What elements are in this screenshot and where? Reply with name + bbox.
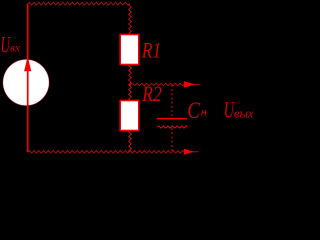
svg-text:вх: вх bbox=[10, 41, 21, 55]
node junction (130,84) bbox=[129, 83, 132, 86]
svg-text:R1: R1 bbox=[141, 38, 161, 63]
wire: branch to output arrow (130,84.4)-(184,84.4) bbox=[131, 83, 185, 85]
svg-text:вых: вых bbox=[234, 106, 254, 121]
voltage source U1 circle bbox=[3, 60, 49, 106]
wire: vertical into R1 top (130,3.6)-(130,34.5) bbox=[129, 4, 132, 35]
output arrow bottom tail line bbox=[192, 151, 199, 153]
output arrow bottom (points right) bbox=[184, 149, 194, 155]
svg-text:R2: R2 bbox=[142, 81, 162, 106]
capacitor Cn lead bottom (dashed) bbox=[171, 128, 173, 151]
wire: bottom rail (28,152)-(184,152) bbox=[28, 150, 185, 153]
svg-text:C: C bbox=[187, 98, 200, 123]
output arrow top (points right) bbox=[184, 81, 196, 87]
wire: top horizontal (28,3.6)-(130,3.6) bbox=[28, 2, 130, 5]
wire: vertical R1 bottom to R2 top through node (130,84) bbox=[129, 65, 132, 101]
voltage source arrow head bbox=[24, 56, 31, 71]
wire: vertical R2 bottom to ground rail (130,130.5)-(130,152) bbox=[129, 131, 132, 152]
output arrow top tail line bbox=[193, 83, 200, 85]
capacitor Cn top plate bbox=[157, 118, 187, 120]
capacitor Cn lead top (dashed, x=172) bbox=[171, 85, 173, 118]
capacitor Cn bottom plate (zigzag) bbox=[158, 126, 187, 128]
wire: left vertical (source lead, x=27.5) bbox=[27, 4, 29, 153]
resistor R1 body bbox=[120, 35, 139, 65]
resistor R2 body bbox=[120, 101, 139, 131]
svg-text:н: н bbox=[201, 105, 207, 119]
